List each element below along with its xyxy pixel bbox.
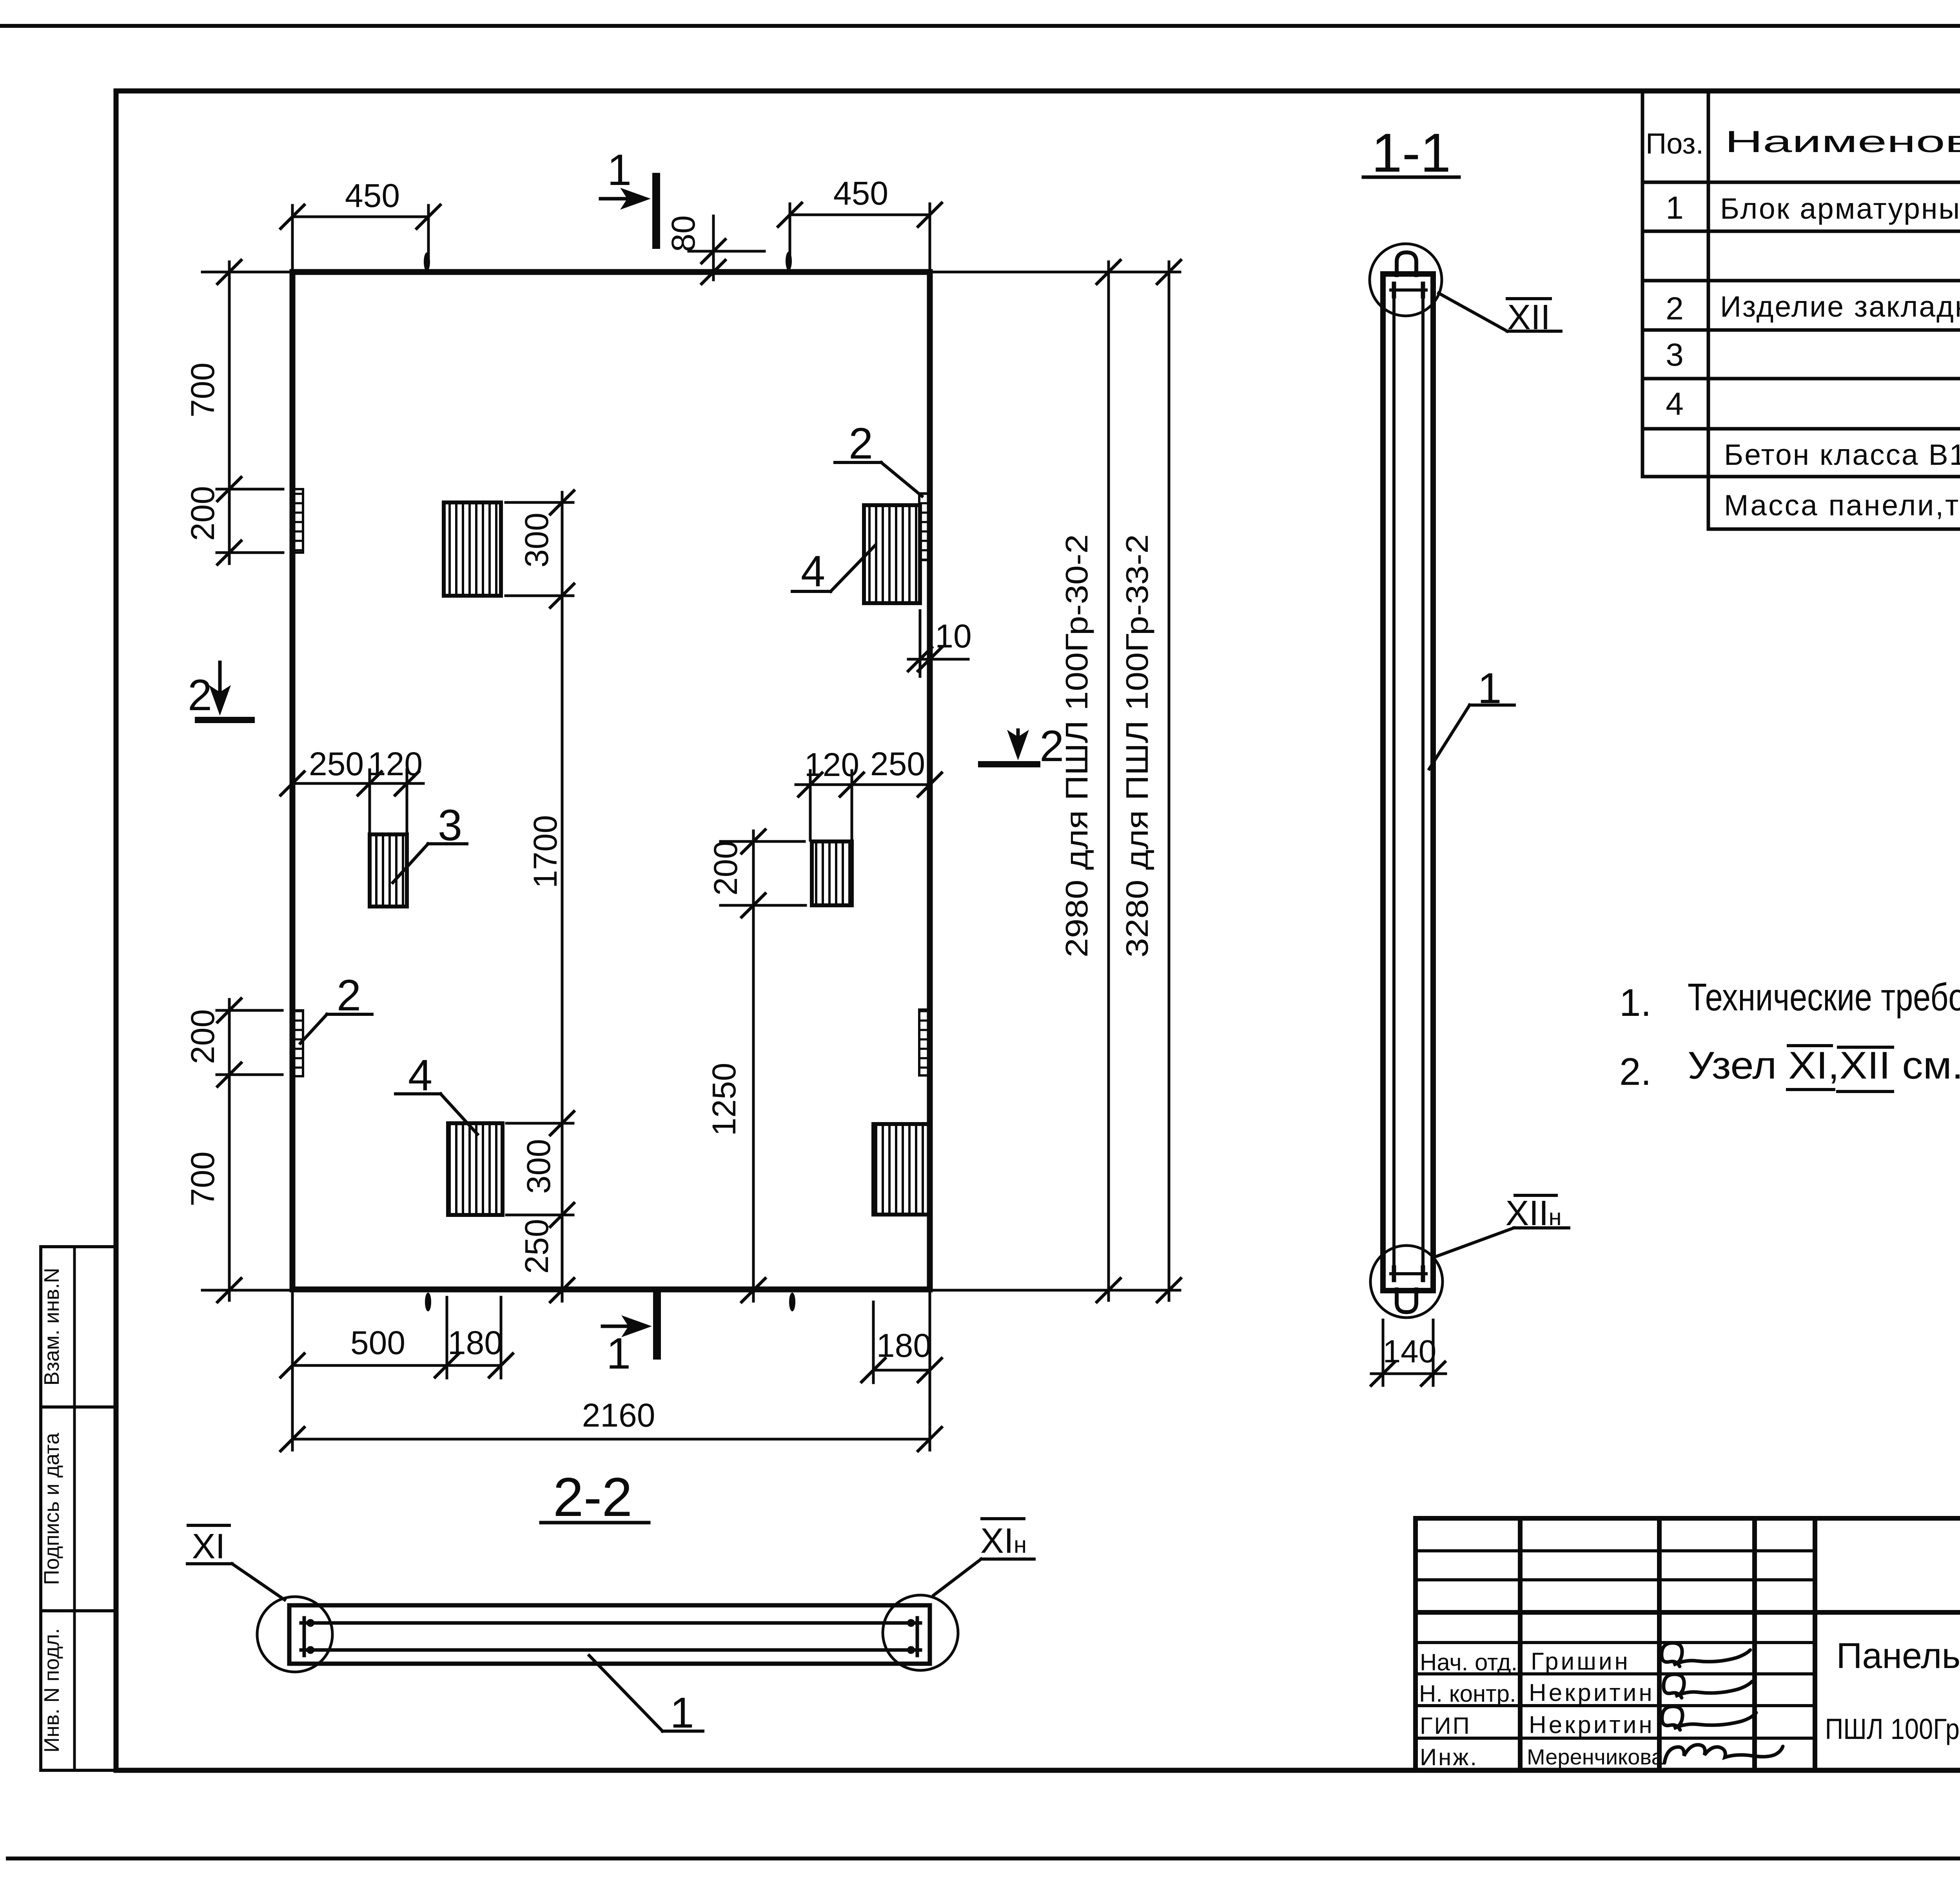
svg-text:4: 4 (1666, 386, 1684, 422)
svg-text:500: 500 (350, 1324, 405, 1361)
svg-text:200: 200 (707, 841, 744, 896)
bottom anchor end left (1392, 1267, 1396, 1280)
lifting loop bottom (1397, 1289, 1416, 1312)
svg-text:Узел XI,XII см. 1.089.1-2.1-1-: Узел XI,XII см. 1.089.1-2.1-1-Д (1688, 1044, 1960, 1087)
dim 500-180 bottom line (292, 1364, 501, 1367)
ticks dim 10 (908, 647, 932, 671)
ticks dim 500-180 (281, 1354, 304, 1377)
ticks left chain (218, 260, 241, 284)
table horizontal: row1 bottom (1642, 230, 1960, 233)
margin box Podpis i data (41, 1407, 116, 1611)
edge stud bottom-right (789, 1293, 795, 1311)
section 2-2 title underline (541, 1521, 649, 1525)
label 4 lower-left leader (441, 1094, 477, 1134)
mid chain line x1434 (561, 492, 564, 1301)
panel outline (292, 272, 930, 1289)
dim 140 ticks (1371, 1362, 1395, 1385)
svg-text:180: 180 (877, 1327, 931, 1364)
section 1-1 title underline (1363, 176, 1459, 179)
title block vertical role/name (1518, 1518, 1523, 1770)
dim 180 right line (873, 1369, 930, 1372)
svg-text:Масса панели,т: Масса панели,т (1724, 489, 1960, 522)
left anchor studs (307, 1619, 314, 1627)
detail circle XI left (257, 1597, 332, 1672)
label XI leader (232, 1564, 285, 1600)
title block vertical signature/date (1752, 1518, 1757, 1770)
margin inner divider (73, 1247, 76, 1770)
plate MN3 upper-left small (370, 834, 407, 907)
plate MN13 lower-middle (448, 1123, 503, 1215)
table horizontal: Massa row bottom (1708, 528, 1960, 531)
dim 180 right ext (872, 1302, 875, 1383)
section 1 bottom marker arrow (603, 1325, 645, 1328)
title block horizontal row line 4 (1416, 1672, 1815, 1675)
bottom anchor bar (1391, 1272, 1426, 1275)
dim 450 right ext b (929, 204, 931, 272)
svg-text:250: 250 (518, 1219, 555, 1274)
dim 80 vertical line (712, 216, 715, 280)
svg-text:Подпись и дата: Подпись и дата (40, 1432, 64, 1585)
comb plate MN1 upper-left (292, 489, 303, 553)
svg-text:2980 для ПШЛ 100Гр-30-2: 2980 для ПШЛ 100Гр-30-2 (1059, 534, 1094, 957)
label XI underline (187, 1562, 232, 1565)
dim 120-250 right ext b (851, 771, 853, 840)
ticks dim 180 right (862, 1358, 885, 1382)
overall height dim line 3280 (1168, 262, 1171, 1300)
signature squiggle row3 (1662, 1706, 1756, 1730)
label 2 lower-left leader (300, 1014, 327, 1043)
dim 140 line (1371, 1373, 1446, 1375)
svg-text:Инв. N подл.: Инв. N подл. (40, 1628, 64, 1752)
label XII leader horizontal (1507, 330, 1561, 333)
svg-text:80: 80 (665, 215, 702, 252)
dim 250-120 left ext b (406, 770, 408, 833)
svg-text:Нач. отд.: Нач. отд. (1420, 1649, 1517, 1675)
edge stud bottom-left (425, 1293, 431, 1311)
svg-text:200: 200 (184, 1009, 221, 1064)
comb plate MN1 lower-left (292, 1010, 303, 1076)
section 2 left marker bar (198, 717, 252, 723)
ticks dim 120-250 right (799, 773, 822, 796)
label 1 underline (1470, 703, 1514, 707)
table vertical: left edge (Poz column) (1641, 91, 1644, 477)
title block horizontal row line 2 (1416, 1578, 1815, 1581)
svg-text:1: 1 (607, 145, 632, 194)
dim 450 left ext a (291, 205, 294, 272)
ticks overall dims (1097, 260, 1120, 284)
svg-text:450: 450 (345, 177, 400, 214)
dim 120-250 right ext a (809, 771, 812, 840)
svg-text:2-2: 2-2 (553, 1466, 632, 1528)
margin box Vzam inv N (41, 1247, 116, 1407)
ticks mid chain (550, 491, 574, 514)
svg-text:2: 2 (188, 671, 212, 720)
plate MN13 upper-middle (444, 502, 501, 596)
svg-text:1700: 1700 (527, 815, 564, 888)
svg-text:XIн: XIн (980, 1521, 1027, 1561)
title block horizontal row line 5 (1416, 1704, 1815, 1707)
ticks dim 250-120 left (281, 772, 304, 795)
rebar left (1392, 289, 1396, 1275)
plate MN3 upper-right small (812, 841, 852, 905)
svg-text:XI: XI (192, 1527, 225, 1566)
panel left corner lower extension (291, 1290, 294, 1450)
plate MN13 upper-right (864, 505, 920, 603)
section 2-2 panel outline (289, 1605, 930, 1664)
dim 500-180 ext b (500, 1297, 503, 1378)
dim 140 ext left (1382, 1320, 1385, 1385)
label 2 upper-right leader (881, 462, 922, 496)
right anchor bar (916, 1618, 919, 1655)
panel right corner lower extension (929, 1290, 931, 1450)
svg-text:Гришин: Гришин (1531, 1648, 1630, 1675)
dim 140 ext right (1432, 1320, 1435, 1385)
svg-text:Меренчикова: Меренчикова (1527, 1744, 1664, 1769)
table horizontal: row3 bottom (1642, 328, 1960, 332)
svg-text:Изделие закладное МН1: Изделие закладное МН1 (1720, 290, 1960, 323)
svg-text:2: 2 (337, 971, 361, 1020)
label 1 underline (2-2) (662, 1730, 703, 1733)
left chain ext 2578 (217, 1009, 282, 1012)
section 2 left marker arrow (218, 662, 222, 707)
ticks dim 2160 (281, 1427, 304, 1451)
svg-text:300: 300 (520, 1139, 557, 1194)
dim 450 left ext b (427, 205, 430, 259)
svg-text:1: 1 (1666, 190, 1684, 226)
bottom anchor end right (1421, 1267, 1425, 1280)
right chain ext 2310 (720, 904, 806, 907)
svg-text:Поз.: Поз. (1646, 127, 1704, 160)
dim 450 right ext a (789, 204, 791, 257)
svg-text:ГИП: ГИП (1420, 1713, 1471, 1739)
section 2 right marker arrow (1016, 730, 1020, 752)
svg-text:2: 2 (1666, 291, 1684, 326)
ticks dim 80 (702, 239, 725, 263)
svg-text:10: 10 (935, 618, 971, 655)
label XIIn overline (1515, 1194, 1556, 1197)
note 2 underline XII (1838, 1090, 1893, 1093)
svg-text:2160: 2160 (582, 1397, 655, 1434)
label XII overline (1507, 297, 1550, 300)
svg-text:ПШЛ 100Гр-30-2 ; ПШЛ 100Гр-33-: ПШЛ 100Гр-30-2 ; ПШЛ 100Гр-33-2 (1825, 1713, 1960, 1745)
bottom edge extension line (202, 1289, 1180, 1292)
ticks right chain (742, 830, 765, 853)
label 3 left underline (428, 842, 467, 845)
table horizontal: Beton row bottom (1642, 475, 1960, 479)
label 4 upper-right leader (831, 546, 875, 591)
signature squiggle row4 (1664, 1745, 1783, 1763)
dim 500-180 ext a (446, 1297, 448, 1378)
svg-text:Технические требования см. 1.0: Технические требования см. 1.089.1-2.1-1… (1688, 975, 1960, 1019)
svg-text:2.: 2. (1619, 1050, 1651, 1093)
title block horizontal row line 6 (1416, 1737, 1815, 1740)
svg-text:Н. контр.: Н. контр. (1419, 1681, 1516, 1707)
svg-text:Взам. инв.N: Взам. инв.N (40, 1268, 64, 1386)
svg-text:700: 700 (184, 1151, 221, 1206)
dim 10 ext (919, 611, 922, 676)
label XI overline (188, 1524, 229, 1527)
rebar top (301, 1621, 920, 1625)
table vertical: Poz/Naimenovanie divider (1707, 91, 1710, 529)
svg-text:XII: XII (1507, 298, 1550, 337)
section 1 bottom marker bar (653, 1292, 661, 1356)
svg-text:Инж.: Инж. (1420, 1744, 1478, 1770)
svg-text:250: 250 (870, 745, 925, 782)
plate MN13 lower-right (873, 1124, 930, 1215)
section 1 top marker bar (652, 177, 660, 245)
label XIn underline (981, 1557, 1034, 1561)
label XIn overline (982, 1517, 1024, 1520)
svg-text:3: 3 (438, 801, 462, 850)
left chain ext 2742 (217, 1073, 282, 1076)
svg-text:450: 450 (833, 175, 888, 212)
detail circle XII bottom (1370, 1246, 1443, 1318)
note 2 overline XII (1838, 1046, 1893, 1049)
svg-text:Панель шахты лифта: Панель шахты лифта (1837, 1636, 1960, 1676)
section 1 top marker arrow (601, 197, 644, 201)
label XII leader diagonal (1439, 293, 1507, 331)
svg-text:3: 3 (1666, 337, 1684, 373)
svg-text:180: 180 (448, 1324, 503, 1361)
svg-text:200: 200 (184, 486, 221, 541)
svg-text:Некритин: Некритин (1529, 1712, 1655, 1739)
dim 80 horizontal line (689, 250, 764, 253)
label XIn leader (934, 1559, 981, 1595)
label XIIn leader diagonal (1434, 1228, 1514, 1257)
top anchor end left (1392, 284, 1396, 296)
svg-text:1-1: 1-1 (1372, 122, 1451, 183)
svg-text:300: 300 (518, 513, 555, 568)
ticks dim 450 left (281, 205, 304, 228)
label 2 lower-left underline (327, 1013, 372, 1016)
rebar bottom (301, 1648, 920, 1652)
comb plate MN1 upper-right (919, 493, 930, 560)
table horizontal: row2 bottom (1642, 279, 1960, 283)
label 2 upper-right underline (835, 461, 881, 464)
overall height dim line 2980 (1107, 262, 1110, 1300)
mid chain ext 1282 (506, 501, 573, 504)
label 4 lower-left underline (396, 1092, 441, 1095)
title block outline (1416, 1518, 1960, 1770)
left anchor bar (303, 1618, 306, 1655)
top anchor end right (1421, 284, 1425, 296)
signature squiggle row1 (1662, 1643, 1750, 1666)
title block horizontal main divider (1416, 1610, 1960, 1615)
svg-text:4: 4 (408, 1051, 432, 1100)
mid chain ext 2866 (506, 1122, 573, 1125)
dim 450 left line (292, 216, 428, 218)
page bottom rule (8, 1857, 1960, 1860)
svg-text:1250: 1250 (706, 1063, 742, 1136)
lifting loop top (1397, 252, 1416, 275)
svg-text:Бетон класса В15,м3: Бетон класса В15,м3 (1724, 437, 1960, 471)
note 2 overline XI (1788, 1044, 1831, 1047)
svg-text:700: 700 (184, 363, 221, 417)
svg-text:Блок арматурный БА50: Блок арматурный БА50 (1720, 192, 1960, 225)
edge stud top-left (424, 252, 430, 271)
svg-text:120: 120 (804, 746, 859, 783)
label XIIn leader horizontal (underline) (1514, 1226, 1569, 1229)
svg-text:1: 1 (606, 1329, 631, 1378)
left chain upper segment (228, 262, 231, 564)
label 3 left leader (393, 844, 428, 883)
left chain lower segment (228, 999, 231, 1300)
svg-text:XIIн: XIIн (1505, 1194, 1561, 1233)
right chain ext 2147 (720, 840, 804, 843)
table horizontal: row4 bottom (1642, 377, 1960, 381)
mid chain ext 1520 (506, 595, 573, 597)
section 2 right marker bar (981, 761, 1037, 767)
label 1 leader (1429, 705, 1470, 769)
svg-text:250: 250 (309, 745, 364, 782)
title block horizontal row line 3 (1416, 1641, 1815, 1644)
top edge extension line (202, 271, 1180, 274)
title block vertical name/signature (1657, 1518, 1662, 1770)
edge stud top-right (786, 252, 792, 270)
detail circle XIn right (883, 1595, 958, 1670)
dim 2160 line (292, 1438, 930, 1441)
rebar right (1421, 289, 1425, 1275)
mid chain ext 3100 (506, 1214, 573, 1217)
table horizontal: row5 bottom (1642, 427, 1960, 431)
svg-text:2: 2 (849, 419, 873, 468)
dim 250-120 left line (292, 782, 423, 785)
title block horizontal row line 1 (1416, 1549, 1815, 1552)
table horizontal: header bottom (1642, 181, 1960, 184)
svg-text:Наименование: Наименование (1725, 124, 1960, 159)
top anchor bar (1391, 288, 1426, 292)
dim 120-250 right line (796, 783, 930, 786)
signature squiggle row2 (1664, 1674, 1752, 1698)
svg-text:3280 для ПШЛ 100Гр-33-2: 3280 для ПШЛ 100Гр-33-2 (1120, 534, 1154, 957)
dim 10 line (908, 658, 968, 661)
label 4 upper-right underline (792, 590, 831, 593)
svg-text:2: 2 (1040, 722, 1064, 771)
left chain ext 1248 (217, 488, 283, 491)
note 2 underline XI (1788, 1088, 1834, 1091)
svg-text:120: 120 (368, 745, 423, 782)
svg-text:4: 4 (801, 547, 825, 596)
title block vertical date/center (1813, 1518, 1817, 1770)
svg-text:1.: 1. (1619, 981, 1651, 1024)
left chain ext 1410 (217, 551, 283, 554)
comb plate MN1 lower-right (919, 1010, 930, 1075)
right chain line x1922 (752, 831, 755, 1301)
dim 450 right line (790, 214, 930, 216)
detail circle XII top (1370, 244, 1442, 316)
page top rule (0, 24, 1960, 28)
label 1 leader (2-2) (589, 1655, 662, 1731)
section 1-1 panel outline (1383, 274, 1433, 1291)
margin box Inv N podl (41, 1611, 116, 1770)
right anchor studs (907, 1619, 915, 1627)
svg-text:Некритин: Некритин (1529, 1679, 1655, 1706)
ticks dim 450 right (778, 203, 802, 227)
dim 250-120 left ext a (368, 770, 371, 833)
